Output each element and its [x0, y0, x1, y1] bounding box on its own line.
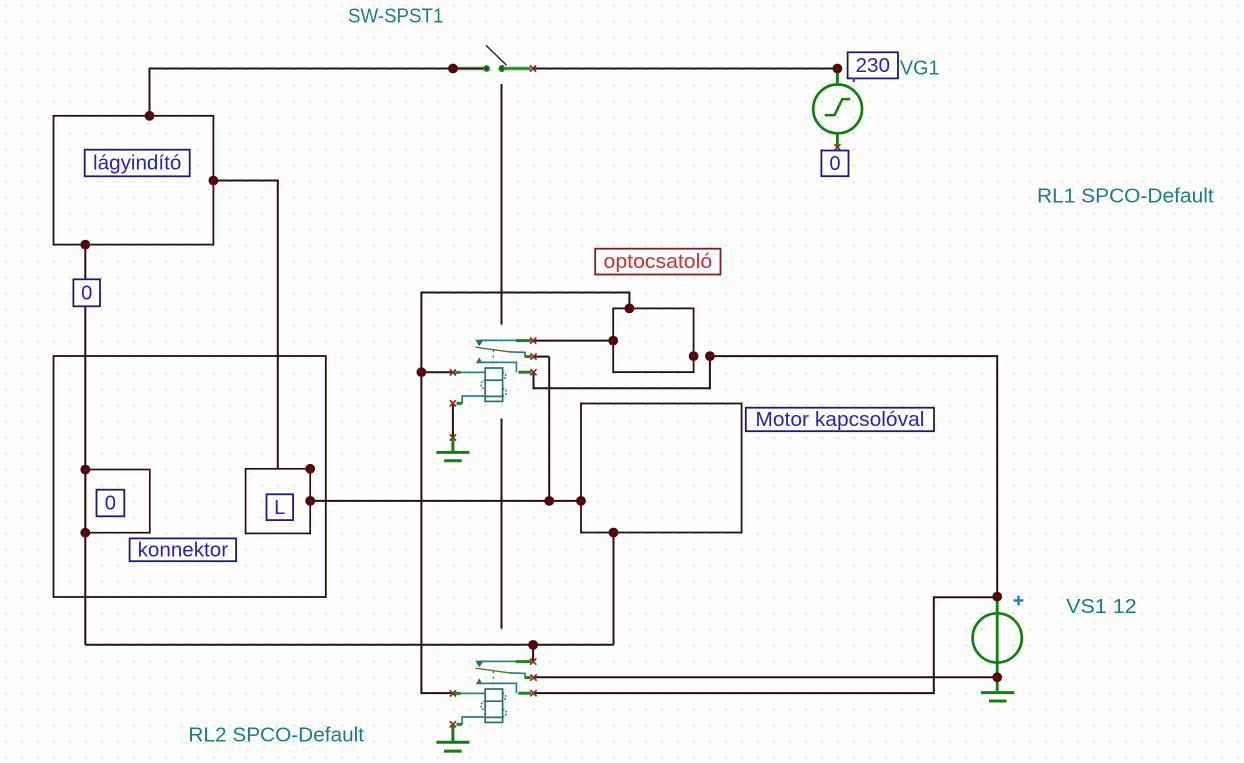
wire RL1 NO to optocoupler	[533, 340, 613, 342]
wire RL2 NO stub	[532, 645, 534, 662]
wire center vertical lower (dangling)	[501, 419, 503, 629]
RL2 coil terminal 1 (teal lead, green pin, x mark)	[450, 690, 485, 696]
node switch left node	[448, 64, 458, 74]
node lagyindito bottom node	[80, 240, 90, 250]
svg-text:RL2 SPCO-Default: RL2 SPCO-Default	[188, 724, 364, 746]
switch SW-SPST1 blade	[486, 45, 507, 65]
RL2 NC contact triangle and line	[476, 678, 517, 693]
wire top-left vertical into lagyindito	[149, 69, 151, 117]
wire switch to VG1	[533, 68, 837, 70]
ground below RL1	[436, 438, 469, 461]
wire RL1 common down to motor wire	[548, 357, 550, 501]
ground below RL2	[436, 726, 469, 752]
RL1 coil terminal 1 (teal lead, green pin, x mark)	[450, 369, 485, 375]
svg-text:0: 0	[81, 282, 92, 304]
RL1 NO contact line and triangle	[475, 340, 517, 347]
wire RL2 common to VS1 minus	[534, 676, 997, 678]
node plug-L top node	[305, 464, 315, 474]
svg-text:RL1 SPCO-Default: RL1 SPCO-Default	[1037, 185, 1214, 207]
RL2 contact pins (green) with x connection marks	[516, 659, 537, 697]
wire RL1 common x to vertical	[534, 356, 550, 358]
relay RL1 (SPCO contacts and coil)	[450, 338, 537, 407]
node VS1 plus node	[992, 592, 1002, 602]
source VS1 vertical lead	[996, 598, 999, 691]
source VS1 circle	[973, 613, 1022, 662]
source VG1 ramp symbol	[825, 99, 851, 115]
RL2 NO contact line and triangle	[475, 661, 517, 668]
svg-text:VS1 12: VS1 12	[1066, 596, 1137, 618]
wire bottom horizontal bus	[85, 644, 613, 646]
relay RL2 (SPCO contacts and coil)	[450, 659, 537, 728]
svg-text:optocsatoló: optocsatoló	[604, 251, 713, 273]
wire optocoupler right to VS1 plus	[710, 356, 997, 596]
source VS1 plus mark	[1014, 596, 1024, 606]
wire lagyindito right to L-plug column	[213, 181, 277, 469]
label optocsatolo	[595, 249, 720, 275]
wire RL1 NC to optocoupler right node	[534, 356, 710, 388]
name SW-SPST1	[348, 6, 443, 28]
node optocoupler right node	[705, 351, 715, 361]
svg-text:230: 230	[856, 55, 891, 77]
svg-text:0: 0	[105, 493, 116, 515]
name VG1	[900, 58, 939, 80]
source VG1 bottom lead and x mark	[834, 133, 840, 150]
svg-text:konnektor: konnektor	[138, 539, 229, 561]
node optocoupler left node	[608, 336, 618, 346]
ground below VS1	[981, 693, 1014, 701]
value label 230 box	[848, 52, 898, 78]
node plug-0 bottom node	[80, 528, 90, 538]
svg-text:0: 0	[829, 153, 840, 175]
source VG1 circle	[813, 85, 862, 134]
switch SW-SPST1 right pin and x mark	[498, 65, 536, 72]
node plug-0 top node	[80, 465, 90, 475]
RL2 actuator dashed link	[492, 671, 494, 688]
node motor wire T node	[544, 496, 554, 506]
wire RL2 NC to VS1 plus	[534, 597, 997, 693]
svg-text:VG1: VG1	[900, 58, 939, 80]
label lagyindito	[85, 150, 190, 177]
node RL1 coil feed node	[417, 367, 427, 377]
wire center vertical upper (switch down)	[501, 84, 503, 325]
svg-text:L: L	[274, 497, 285, 519]
wire optocoupler top loop to RL1 coil and RL2 coil	[421, 293, 629, 694]
label konnektor	[130, 538, 237, 561]
RL1 actuator dashed link	[492, 350, 494, 367]
wire top horizontal to switch	[149, 68, 453, 70]
source VG1 top lead	[836, 69, 839, 86]
node plug-L right node	[305, 496, 315, 506]
node RL2 NO node	[528, 640, 538, 650]
name RL1 SPCO-Default	[1037, 185, 1214, 207]
node lagyindito right node	[209, 176, 219, 186]
x mark RL1 ground pin	[450, 434, 456, 440]
name VS1 12	[1066, 596, 1137, 618]
node optocoupler right corner node	[689, 351, 699, 361]
RL1 contact pins (green) with x connection marks	[516, 338, 537, 376]
wire motor-bottom vertical	[613, 533, 615, 645]
node optocoupler top node	[625, 304, 635, 314]
label 0 box under VG1	[821, 151, 848, 177]
svg-text:Motor kapcsolóval: Motor kapcsolóval	[755, 409, 924, 431]
label Motor kapcsolovaI	[746, 408, 934, 432]
block plug-0 inner rectangle	[85, 470, 150, 533]
label 0 in plug-0	[97, 490, 125, 517]
wire L-plug to motor box	[310, 500, 581, 502]
node VS1 minus node	[992, 672, 1002, 682]
RL1 pivot (common) arm	[476, 347, 526, 356]
RL1 coil terminal 2 (teal lead, green pin, x mark)	[450, 396, 485, 406]
wire lagyindito bottom down left column	[84, 245, 86, 645]
RL1 coil	[481, 368, 506, 401]
polarity tick below 230 box	[853, 78, 855, 83]
RL1 NC contact triangle and line	[476, 357, 517, 372]
RL2 pivot (common) arm	[476, 668, 526, 677]
svg-text:lágyindító: lágyindító	[93, 153, 181, 175]
switch SW-SPST1 left pin	[453, 65, 490, 72]
block optocoupler rectangle	[613, 308, 693, 372]
block plug-L inner rectangle	[246, 469, 311, 534]
block konnektor rectangle	[54, 356, 326, 597]
RL2 coil terminal 2 (teal lead, green pin, x mark)	[450, 717, 485, 727]
RL2 coil	[481, 689, 506, 722]
name RL2 SPCO-Default	[188, 724, 364, 746]
wire RL1 coil terminal to left column	[421, 371, 453, 373]
node VG1 top node	[833, 64, 843, 74]
node lagyindito top node	[145, 111, 155, 121]
svg-text:SW-SPST1: SW-SPST1	[348, 6, 443, 28]
block motor rectangle	[581, 404, 742, 533]
label 0 under lagyindito	[73, 279, 100, 306]
node motor bottom node	[609, 528, 619, 538]
wire RL1 coil bottom to ground	[452, 403, 454, 437]
node motor left node	[576, 496, 586, 506]
label L in plug-L	[267, 494, 294, 520]
block lagyindito rectangle	[54, 116, 214, 245]
